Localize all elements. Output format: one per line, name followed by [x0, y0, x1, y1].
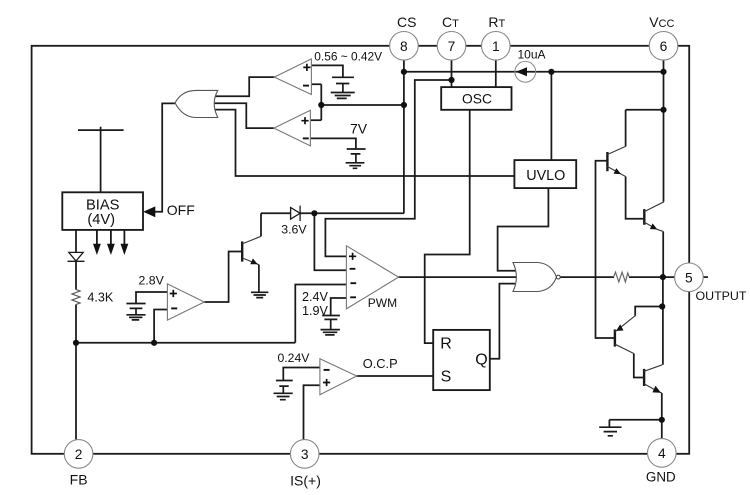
wire pin 5 external stub	[703, 276, 708, 278]
PWM comparator U4	[346, 246, 398, 309]
RS flip-flop block	[433, 330, 490, 390]
wire NOR output to resistor and pin 5	[560, 276, 674, 278]
battery ref 2.8V with ground	[126, 304, 145, 320]
svg-text:2.8V: 2.8V	[139, 273, 165, 287]
svg-text:GND: GND	[646, 470, 676, 485]
resistor 4.3K (vertical zigzag)	[72, 290, 80, 305]
svg-text:OFF: OFF	[167, 202, 195, 218]
wire OR gate output to OFF arrow	[155, 103, 175, 211]
wire Q3 emitter branch	[635, 307, 662, 316]
error amp U3 (2.8V)	[167, 284, 204, 320]
BIAS bias-current arrows	[93, 230, 128, 255]
svg-text:0.56 ~ 0.42V: 0.56 ~ 0.42V	[314, 50, 382, 64]
wire CS column (pin8 down to zener rail)	[300, 60, 404, 213]
svg-text:CS: CS	[397, 14, 416, 30]
wire VCC column	[663, 60, 665, 202]
svg-text:R: R	[440, 335, 452, 352]
wire comp U1 + input to 0.56V ref	[311, 65, 343, 77]
wire comp U1 output to OR gate	[214, 77, 274, 96]
wire UVLO output to NOR gate input	[498, 188, 549, 271]
transistor Q2 (lower NPN of top darlington)	[644, 202, 664, 232]
wire Q output to NOR gate input	[490, 284, 515, 359]
wire OCP - input to 0.24V ref	[283, 368, 320, 381]
battery ref 7V with ground	[346, 149, 366, 168]
wire pin 7 to OSC and CT branch	[325, 60, 451, 256]
ground at output stage	[599, 427, 621, 436]
svg-text:1: 1	[492, 39, 500, 54]
svg-text:PWM: PWM	[368, 296, 397, 310]
wire Q4 emitter to ground node	[661, 393, 663, 420]
wire OCP output to S input	[357, 375, 434, 377]
wire 10uA rail to UVLO input	[550, 72, 552, 160]
wire zener node down to PWM input 2	[314, 213, 346, 270]
wire OSC clock output to RS flip-flop R input	[425, 110, 470, 343]
svg-text:4: 4	[658, 446, 666, 461]
pin 7 (CT)	[437, 32, 466, 61]
svg-text:10uA: 10uA	[518, 47, 546, 61]
pin 4 (GND)	[648, 439, 677, 468]
internal rail T-bar above BIAS	[78, 127, 124, 193]
wire 10uA rail	[404, 71, 664, 73]
wire FB rail	[76, 285, 346, 343]
UVLO block	[514, 160, 576, 188]
OFF arrowhead	[143, 206, 155, 217]
svg-text:3: 3	[301, 447, 309, 462]
pin 1 (RT)	[482, 32, 511, 61]
svg-text:2.4V: 2.4V	[302, 290, 329, 304]
svg-text:UVLO: UVLO	[526, 168, 565, 184]
svg-text:OUTPUT: OUTPUT	[696, 289, 747, 303]
diode D1 below BIAS	[68, 252, 85, 261]
wire Q5 collector to zener rail	[261, 213, 291, 236]
wire comp U2 output to OR gate	[214, 103, 274, 128]
svg-text:7V: 7V	[350, 121, 368, 137]
wire error amp - input to FB rail	[154, 310, 167, 343]
wire ground node to pin 4	[661, 420, 663, 440]
comparator U1 (OVP, 0.56~0.42V)	[274, 59, 311, 95]
wire PWM output to NOR gate input	[399, 276, 519, 278]
battery ref 0.24V with ground	[274, 381, 293, 400]
battery ref 2.4V/1.9V with ground	[321, 316, 340, 335]
transistor Q1 (upper NPN of top darlington)	[607, 146, 625, 176]
svg-text:4.3K: 4.3K	[87, 291, 114, 305]
wire pin 1 to OSC	[495, 60, 497, 87]
svg-text:6: 6	[660, 39, 668, 54]
wire ground node branch	[609, 420, 661, 427]
IC boundary box	[32, 46, 690, 454]
wire BIAS to diode D1	[75, 230, 77, 253]
wire error amp + input to 2.8V ref	[136, 292, 167, 303]
BIAS block	[62, 192, 143, 230]
wire resistor 4.3K to FB node	[75, 305, 77, 343]
wire Q2 emitter to output node	[662, 231, 664, 277]
svg-text:8: 8	[400, 39, 408, 54]
comparator U2 (7V)	[274, 110, 311, 146]
OR gate G1 (mirrored, output left, OVP logic)	[175, 90, 218, 117]
zener diode D2 3.6V	[291, 206, 301, 221]
transistor Q5 (emitter follower near 3.6V)	[242, 236, 261, 264]
pin 3 (IS+)	[290, 440, 319, 469]
ground at Q5 emitter	[251, 265, 268, 298]
wire comp U2 - input to 7V ref	[310, 138, 356, 149]
battery ref 0.56~0.42V with ground	[331, 77, 355, 98]
transistor Q3 (PNP of pull-down pair)	[615, 316, 635, 354]
svg-text:5: 5	[685, 271, 693, 286]
svg-text:7: 7	[448, 39, 456, 54]
wire comp U2 non-inverting input	[310, 119, 321, 121]
wire UVLO to OR gate input	[214, 110, 514, 176]
svg-text:(4V): (4V)	[87, 212, 115, 228]
wire Q1 collector rail	[626, 110, 664, 147]
svg-text:FB: FB	[70, 471, 88, 487]
NOR gate G2 (output driver logic)	[513, 263, 560, 292]
wire OCP + input to pin 3	[304, 385, 320, 439]
svg-text:1.9V: 1.9V	[302, 304, 329, 318]
svg-text:3.6V: 3.6V	[281, 222, 307, 236]
pin 2 (FB)	[64, 440, 93, 469]
svg-text:IS(+): IS(+)	[290, 472, 321, 488]
wire error amp output to Q5 base	[204, 252, 241, 303]
current source 10uA (circle with left arrow)	[515, 61, 536, 82]
pin 6 (VCC)	[649, 32, 678, 61]
wire output column down to Q4 collector	[662, 277, 664, 365]
wire comparator node to CS column	[321, 104, 404, 106]
svg-text:0.24V: 0.24V	[278, 351, 311, 365]
OCP comparator U5 (0.24V)	[320, 359, 357, 395]
svg-text:S: S	[441, 369, 452, 386]
svg-text:OSC: OSC	[462, 91, 492, 106]
transistor Q4 (NPN of pull-down pair)	[644, 365, 662, 393]
pin 5 (OUTPUT)	[675, 263, 704, 292]
wire Q1 base / Q3 base tie	[596, 161, 615, 338]
wire Q3 collector to Q4 base	[634, 354, 643, 378]
wire PWM input 4 to 2.4V/1.9V ref	[331, 298, 347, 316]
wire comp U1 inverting input	[311, 84, 321, 120]
wire Q1 emitter to Q2 base	[626, 177, 644, 219]
pin 8 (CS)	[390, 32, 419, 61]
svg-text:2: 2	[75, 447, 83, 462]
OSC block	[441, 87, 511, 110]
resistor output series (horizontal zigzag)	[614, 272, 630, 282]
wire FB node down to pin 2	[75, 343, 77, 440]
svg-text:Q: Q	[475, 351, 487, 368]
wire diode D1 to resistor 4.3K	[75, 261, 77, 289]
svg-text:O.C.P: O.C.P	[363, 356, 398, 371]
